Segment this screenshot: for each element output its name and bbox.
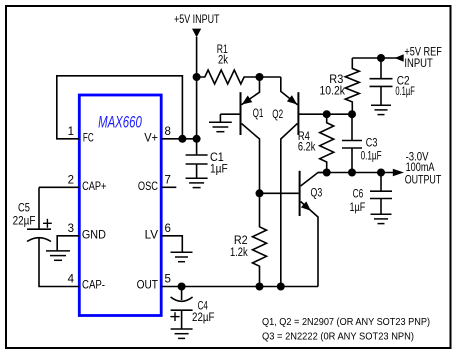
transistor Q2 xyxy=(281,77,352,287)
ground C6 xyxy=(371,214,392,223)
svg-text:C4: C4 xyxy=(198,301,209,313)
arrow -3V output xyxy=(393,169,404,177)
wire pin7 OSC stub xyxy=(161,186,176,188)
svg-text:Q3 = 2N2222 (0R ANY SOT23 NPN): Q3 = 2N2222 (0R ANY SOT23 NPN) xyxy=(262,330,414,342)
svg-text:0.1µF: 0.1µF xyxy=(361,151,382,163)
svg-text:7: 7 xyxy=(165,174,171,186)
wire output row xyxy=(318,172,394,174)
svg-text:CAP+: CAP+ xyxy=(82,181,107,193)
svg-text:22µF: 22µF xyxy=(192,312,215,324)
wire pin6 LV stub xyxy=(161,236,182,252)
svg-text:V+: V+ xyxy=(144,133,158,145)
capacitor C1 xyxy=(186,155,208,178)
svg-text:GND: GND xyxy=(82,230,106,242)
transistor Q1 xyxy=(220,77,259,193)
svg-text:2: 2 xyxy=(68,174,74,186)
node +5V REF / C2 xyxy=(377,54,385,62)
capacitor C6 xyxy=(370,173,392,215)
ground C1 xyxy=(186,178,208,187)
svg-text:4: 4 xyxy=(68,273,75,285)
wire +5V input vertical xyxy=(196,37,198,155)
svg-text:22µF: 22µF xyxy=(13,216,36,228)
svg-text:C3: C3 xyxy=(366,138,378,150)
IC U1 MAX660 box xyxy=(79,95,161,316)
wire +5V REF top xyxy=(352,57,397,59)
node R1 right / emitters xyxy=(256,73,264,81)
svg-text:OSC: OSC xyxy=(138,181,158,193)
wire C5 branch lower to pin4 xyxy=(39,238,79,287)
node OUT / R2 xyxy=(256,283,264,291)
node Q3 collector / R4 xyxy=(323,169,331,177)
svg-text:1µF: 1µF xyxy=(210,164,228,176)
svg-text:8: 8 xyxy=(165,126,171,138)
resistor R2 xyxy=(253,193,267,286)
svg-text:OUTPUT: OUTPUT xyxy=(405,174,442,186)
node OUT / C4 xyxy=(178,283,186,291)
svg-text:6.2k: 6.2k xyxy=(298,142,316,154)
capacitor C4 electrolytic xyxy=(170,287,192,330)
node R4 top xyxy=(323,110,331,118)
svg-text:FC: FC xyxy=(83,133,94,145)
node C6 top xyxy=(377,169,385,177)
svg-text:CAP-: CAP- xyxy=(82,280,105,292)
svg-text:R2: R2 xyxy=(234,235,248,247)
svg-text:3: 3 xyxy=(68,223,74,235)
svg-text:1.2k: 1.2k xyxy=(230,247,248,259)
transistor Q3 xyxy=(260,171,327,287)
capacitor C3 xyxy=(342,114,362,172)
svg-text:6: 6 xyxy=(165,223,171,235)
svg-text:1µF: 1µF xyxy=(350,202,366,214)
node R3 bottom xyxy=(348,110,356,118)
svg-text:5: 5 xyxy=(165,273,171,285)
svg-text:INPUT: INPUT xyxy=(404,58,432,70)
resistor R3 xyxy=(345,58,359,114)
svg-text:Q3: Q3 xyxy=(311,188,323,200)
node V+ / +5V xyxy=(193,135,201,143)
wire V+ pin8 stub xyxy=(161,138,197,140)
svg-text:0.1µF: 0.1µF xyxy=(395,86,414,98)
arrow +5V REF input xyxy=(395,54,404,62)
svg-text:Q1: Q1 xyxy=(253,108,264,120)
ground C2 xyxy=(371,105,391,114)
svg-text:C1: C1 xyxy=(210,152,224,164)
svg-text:100mA: 100mA xyxy=(406,162,435,174)
node R1 left / +5V xyxy=(193,73,201,81)
svg-text:2k: 2k xyxy=(218,55,228,67)
svg-text:C5: C5 xyxy=(18,203,30,215)
svg-text:C6: C6 xyxy=(353,189,364,201)
node C3 bottom xyxy=(348,169,356,177)
node OUT / Q2 collector xyxy=(277,283,285,291)
wire pin2 CAP+ stub xyxy=(39,186,79,188)
svg-text:Q1, Q2 = 2N2907 (OR ANY SOT23: Q1, Q2 = 2N2907 (OR ANY SOT23 PNP) xyxy=(262,316,430,328)
svg-text:1: 1 xyxy=(68,126,74,138)
svg-text:OUT: OUT xyxy=(137,280,158,292)
ground Q1 base xyxy=(209,114,232,132)
node FC loop / V+ xyxy=(178,135,186,143)
ground pin6 LV xyxy=(171,252,193,261)
svg-text:LV: LV xyxy=(145,230,159,242)
wire FC loop pin1 xyxy=(57,76,183,139)
svg-text:+5V INPUT: +5V INPUT xyxy=(174,14,220,26)
capacitor C2 xyxy=(370,58,393,105)
wire pin3 GND stub xyxy=(57,236,79,251)
svg-text:Q2: Q2 xyxy=(272,109,283,121)
ground C4 xyxy=(171,329,193,338)
capacitor C5 electrolytic xyxy=(27,219,52,242)
wire emitters node xyxy=(260,76,281,78)
svg-text:+5V REF: +5V REF xyxy=(404,47,441,59)
svg-text:MAX660: MAX660 xyxy=(98,114,142,132)
ground pin3 xyxy=(46,251,70,260)
arrow +5V input xyxy=(192,29,201,38)
resistor R4 xyxy=(320,114,334,172)
node Q1 collector / Q3 base xyxy=(256,189,264,197)
wire pin5 OUT horizontal xyxy=(161,286,318,288)
wire C5 branch upper xyxy=(38,187,40,229)
svg-text:R3: R3 xyxy=(329,74,343,86)
svg-text:10.2k: 10.2k xyxy=(320,86,346,98)
resistor R1 xyxy=(197,70,260,84)
